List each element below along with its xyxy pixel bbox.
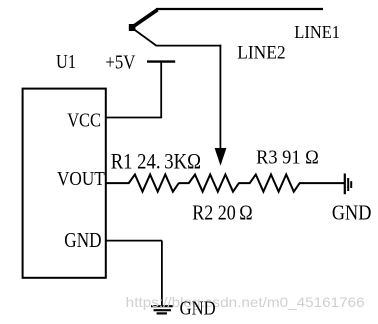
wire VCC pin — [105, 117, 162, 119]
wire GND pin vertical — [161, 241, 163, 306]
connector J1 tip square — [129, 24, 136, 31]
ground right bar3 — [350, 181, 352, 188]
resistor R2 zigzag — [179, 175, 239, 192]
svg-text:LINE1: LINE1 — [294, 22, 340, 42]
svg-text:https://blog.csdn.net/m0_45161: https://blog.csdn.net/m0_45161766 — [126, 294, 365, 310]
svg-text:R1 24. 3KΩ: R1 24. 3KΩ — [111, 149, 201, 174]
wire LINE1 — [156, 8, 323, 10]
wiper arrowhead into R2 — [215, 148, 227, 166]
svg-text:U1: U1 — [56, 51, 76, 73]
svg-text:+5V: +5V — [105, 52, 135, 74]
ground earth bottom bar3 — [157, 312, 167, 314]
resistor R3 zigzag — [238, 175, 344, 192]
svg-text:VOUT: VOUT — [57, 168, 105, 190]
wire LINE2 vertical drop — [219, 45, 221, 149]
ground right bar2 — [347, 178, 349, 191]
ground earth bottom bar1 — [151, 305, 173, 307]
svg-text:R3 91 Ω: R3 91 Ω — [256, 146, 319, 168]
svg-text:GND: GND — [64, 228, 101, 252]
wire LINE2 horizontal — [156, 45, 222, 47]
ground earth bottom bar2 — [154, 309, 171, 311]
svg-text:R2 20 Ω: R2 20 Ω — [192, 200, 253, 224]
power +5V stem — [160, 62, 162, 118]
svg-text:LINE2: LINE2 — [237, 43, 285, 64]
ground right bar1 — [344, 174, 346, 195]
connector J1 lower arm — [133, 29, 157, 46]
power +5V bar — [147, 60, 175, 62]
svg-text:GND: GND — [180, 298, 216, 320]
svg-text:GND: GND — [332, 200, 372, 224]
wire GND pin horizontal — [105, 240, 162, 242]
resistor R1 zigzag — [106, 175, 179, 192]
IC U1 box — [23, 89, 106, 278]
connector J1 upper arm — [133, 10, 158, 27]
svg-text:VCC: VCC — [67, 110, 101, 132]
